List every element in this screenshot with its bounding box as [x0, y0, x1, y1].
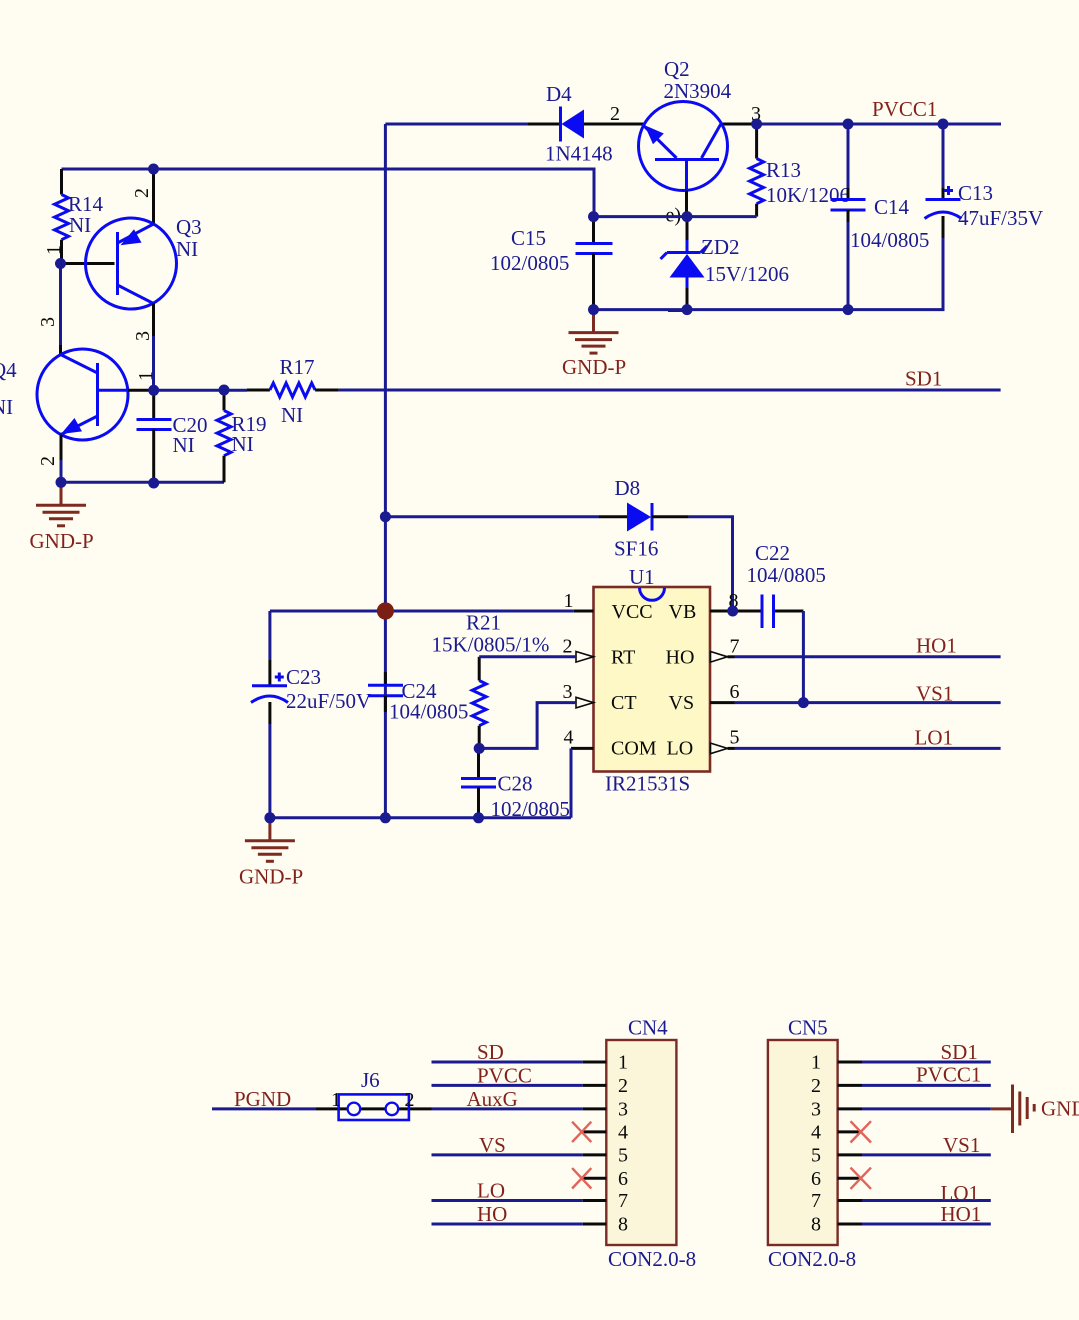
svg-text:CT: CT — [611, 692, 637, 714]
wire VS1 net bottom — [862, 1153, 991, 1156]
capacitor C23 polarized — [251, 660, 371, 724]
transistor Q3 — [43, 169, 202, 341]
net label HO1 — [916, 634, 957, 658]
connector CN4 — [582, 1016, 696, 1272]
capacitor C20 — [137, 390, 208, 483]
wire VS1 net — [735, 701, 1001, 704]
svg-text:VS1: VS1 — [943, 1133, 980, 1157]
svg-text:NI: NI — [176, 237, 198, 261]
junction C15 top node — [588, 211, 599, 222]
wire VS net — [432, 1153, 583, 1156]
junction bottom wire at C14 — [843, 304, 854, 315]
wire C22 down to VS net — [802, 611, 805, 703]
svg-text:3: 3 — [563, 681, 573, 703]
wire PVCC1 top left segment — [385, 123, 528, 126]
svg-text:VB: VB — [669, 601, 697, 623]
svg-text:1: 1 — [43, 245, 65, 255]
net label LO1 — [915, 726, 954, 750]
wire PVCC1 top right segment — [757, 123, 1001, 126]
capacitor C22 — [733, 541, 826, 628]
svg-text:Q4: Q4 — [0, 358, 17, 382]
wire RT net horizontal — [479, 655, 576, 658]
diode D8 — [599, 476, 689, 561]
svg-text:RT: RT — [611, 647, 635, 669]
svg-text:5: 5 — [618, 1145, 628, 1167]
svg-text:HO1: HO1 — [916, 634, 957, 658]
wire HO1 net — [735, 655, 1001, 658]
wire bottom-left GND net — [61, 481, 224, 484]
junction Q4 emitter GND node — [56, 477, 67, 488]
wire Q3 emitter down to Q4 base node — [152, 336, 155, 390]
svg-text:C23: C23 — [286, 665, 321, 689]
junction top wire at R13 — [751, 119, 762, 130]
svg-text:SD: SD — [477, 1040, 504, 1064]
svg-text:PVCC1: PVCC1 — [916, 1063, 981, 1087]
net label LO1 bottom — [941, 1181, 980, 1205]
zener diode ZD2 — [661, 217, 790, 311]
wire Q3 base node down to Q4 collector — [59, 264, 62, 346]
wire C23 to bottom GND node — [268, 724, 271, 818]
svg-text:3: 3 — [132, 331, 154, 341]
svg-text:NI: NI — [69, 213, 91, 237]
svg-text:1N4148: 1N4148 — [545, 142, 613, 166]
net label HO — [477, 1202, 507, 1226]
wire PVCC1 net bottom — [862, 1084, 991, 1087]
diode D4 — [528, 82, 613, 166]
net label SD1 bottom — [941, 1040, 978, 1064]
net label AuxG — [467, 1087, 518, 1111]
svg-text:102/0805: 102/0805 — [490, 251, 569, 275]
junction y169 wire at Q3 collector — [148, 164, 159, 175]
svg-text:Q3: Q3 — [176, 215, 202, 239]
svg-text:HO: HO — [477, 1202, 507, 1226]
svg-text:GND: GND — [1041, 1097, 1079, 1121]
ground GND-P of mid section — [239, 818, 303, 889]
svg-text:D4: D4 — [546, 82, 572, 106]
svg-text:6: 6 — [811, 1168, 821, 1190]
wire SD net — [432, 1061, 583, 1064]
svg-text:J6: J6 — [361, 1068, 380, 1092]
net label PVCC — [477, 1064, 532, 1088]
junction emitter node at Q2 stem — [682, 211, 693, 222]
wire SD1 net bottom — [862, 1061, 991, 1064]
svg-text:PGND: PGND — [234, 1087, 291, 1111]
svg-text:2: 2 — [618, 1075, 628, 1097]
svg-text:5: 5 — [811, 1145, 821, 1167]
svg-text:R17: R17 — [280, 355, 315, 379]
svg-text:R13: R13 — [766, 158, 801, 182]
net label PVCC1 bottom — [916, 1063, 981, 1087]
svg-text:C28: C28 — [498, 772, 533, 796]
transistor Q2 2N3904 — [584, 57, 761, 227]
wire AuxG net — [432, 1107, 583, 1110]
no-connect X on CN4 pin 4 — [572, 1122, 591, 1142]
svg-text:SD1: SD1 — [941, 1040, 978, 1064]
svg-text:2: 2 — [131, 188, 153, 198]
svg-text:HO: HO — [666, 647, 695, 669]
ground GND-P of left section — [30, 482, 94, 553]
svg-text:C13: C13 — [958, 181, 993, 205]
capacitor C24 — [368, 672, 468, 724]
svg-text:HO1: HO1 — [941, 1202, 982, 1226]
svg-text:10K/1206: 10K/1206 — [766, 183, 850, 207]
net label LO — [477, 1179, 505, 1203]
resistor R14 — [55, 169, 104, 264]
svg-text:8: 8 — [618, 1214, 628, 1236]
wire VCC corner down to C23 — [268, 611, 271, 660]
svg-text:6: 6 — [730, 681, 740, 703]
svg-text:8: 8 — [811, 1214, 821, 1236]
junction GND wire at bus — [380, 812, 391, 823]
junction top wire at C14 — [843, 119, 854, 130]
svg-text:CON2.0-8: CON2.0-8 — [768, 1247, 856, 1271]
junction bus at D8 — [380, 511, 391, 522]
wire Q4 base row — [152, 389, 247, 392]
net label PGND — [234, 1087, 291, 1111]
junction bottom wire at C15 — [588, 304, 599, 315]
junction R19 top node — [219, 385, 230, 396]
svg-text:2N3904: 2N3904 — [664, 79, 732, 103]
resistor R21 — [432, 611, 550, 749]
op-amp U1 IR21531S box — [563, 565, 740, 796]
resistor R13 — [750, 124, 850, 217]
junction top wire at C13 — [938, 119, 949, 130]
svg-text:C22: C22 — [755, 541, 790, 565]
wire HO1 net bottom — [862, 1223, 991, 1226]
capacitor C13 polarized — [925, 124, 1044, 238]
svg-text:IR21531S: IR21531S — [605, 772, 690, 796]
wire LO1 net — [735, 747, 1001, 750]
svg-text:7: 7 — [730, 636, 740, 658]
svg-text:4: 4 — [618, 1122, 628, 1144]
svg-text:GND-P: GND-P — [239, 865, 303, 889]
wire emitter node horizontal — [594, 215, 757, 218]
svg-text:2: 2 — [37, 456, 59, 466]
wire bottom GND-P net of top section — [594, 238, 944, 310]
svg-text:C15: C15 — [511, 226, 546, 250]
capacitor C28 — [461, 748, 570, 821]
wire CN5 pin3 to GND — [862, 1107, 991, 1110]
svg-text:AuxG: AuxG — [467, 1087, 518, 1111]
wire VCC net horizontal — [270, 610, 574, 613]
ground GND right side — [991, 1085, 1079, 1134]
junction C20 bottom node — [148, 478, 159, 489]
svg-text:3: 3 — [618, 1099, 628, 1121]
svg-text:SF16: SF16 — [614, 537, 658, 561]
ground GND-P of top section — [562, 310, 626, 379]
svg-text:C14: C14 — [874, 195, 910, 219]
net label HO1 bottom — [941, 1202, 982, 1226]
wire LO1 net bottom — [862, 1199, 991, 1202]
wire CT net route — [479, 703, 576, 749]
svg-text:1: 1 — [811, 1052, 821, 1074]
svg-text:3: 3 — [37, 317, 59, 327]
svg-text:GND-P: GND-P — [562, 355, 626, 379]
wire SD1 net to right edge — [339, 389, 1001, 392]
wire from y169 net down to C15 node — [62, 169, 595, 217]
svg-text:2: 2 — [811, 1075, 821, 1097]
svg-text:D8: D8 — [615, 476, 641, 500]
no-connect X on CN5 pin 4 — [851, 1121, 872, 1142]
svg-text:47uF/35V: 47uF/35V — [958, 206, 1043, 230]
svg-text:6: 6 — [618, 1168, 628, 1190]
junction VS net at C22 branch — [798, 697, 809, 708]
svg-text:VS: VS — [479, 1133, 506, 1157]
capacitor C15 — [490, 217, 613, 310]
svg-text:5: 5 — [730, 727, 740, 749]
no-connect X on CN4 pin 6 — [572, 1168, 591, 1188]
svg-text:GND-P: GND-P — [30, 529, 94, 553]
junction VB pin node — [727, 606, 738, 617]
junction bottom wire at ZD2 — [682, 304, 693, 315]
svg-text:CN5: CN5 — [788, 1016, 828, 1040]
net label SD1 — [905, 367, 942, 391]
junction GND wire at C28 — [473, 812, 484, 823]
junction Q4 base node — [148, 385, 159, 396]
transistor Q4 — [0, 317, 157, 466]
svg-text:22uF/50V: 22uF/50V — [286, 689, 371, 713]
svg-text:VCC: VCC — [612, 601, 653, 623]
wire COM pin down to GND wire — [570, 748, 573, 817]
svg-text:NI: NI — [173, 433, 195, 457]
svg-text:4: 4 — [811, 1122, 821, 1144]
svg-text:VS: VS — [669, 692, 695, 714]
svg-text:COM: COM — [611, 738, 657, 760]
svg-text:LO: LO — [667, 738, 694, 760]
svg-text:Q2: Q2 — [664, 57, 690, 81]
wire PGND to J6 — [212, 1107, 316, 1110]
wire D8 cathode to VB pin 8 — [689, 517, 733, 611]
junction GND wire at C23 — [264, 812, 275, 823]
svg-text:104/0805: 104/0805 — [850, 228, 929, 252]
svg-text:CN4: CN4 — [628, 1016, 668, 1040]
net label SD — [477, 1040, 504, 1064]
svg-text:1: 1 — [564, 590, 574, 612]
svg-text:1: 1 — [618, 1052, 628, 1074]
svg-text:1: 1 — [331, 1089, 341, 1111]
resistor R19 — [217, 390, 267, 482]
svg-text:104/0805: 104/0805 — [747, 563, 826, 587]
svg-text:NI: NI — [232, 432, 254, 456]
connector CN5 — [768, 1016, 862, 1272]
wire Q4 emitter to GND node — [60, 460, 63, 482]
net label VS — [479, 1133, 506, 1157]
net label PVCC1 — [872, 97, 937, 121]
svg-text:2: 2 — [405, 1089, 415, 1111]
svg-text:1: 1 — [135, 371, 157, 381]
svg-text:U1: U1 — [629, 565, 655, 589]
wire VB net from bus to D8 — [385, 515, 599, 518]
svg-text:15V/1206: 15V/1206 — [705, 262, 789, 286]
svg-text:2: 2 — [563, 636, 573, 658]
svg-text:VS1: VS1 — [916, 682, 953, 706]
wire long vertical bus from top wire down to bottom GND wire — [384, 124, 387, 818]
svg-text:7: 7 — [618, 1190, 628, 1212]
svg-text:NI: NI — [281, 403, 303, 427]
svg-text:SD1: SD1 — [905, 367, 942, 391]
net label VS1 — [916, 682, 953, 706]
svg-text:3: 3 — [811, 1099, 821, 1121]
svg-text:R21: R21 — [466, 611, 501, 635]
wire LO net — [432, 1199, 583, 1202]
svg-text:104/0805: 104/0805 — [389, 700, 468, 724]
svg-text:LO: LO — [477, 1179, 505, 1203]
wire bottom GND-P net of mid section — [270, 816, 571, 819]
node VCC bus junction (dark red) — [377, 602, 394, 619]
svg-text:PVCC: PVCC — [477, 1064, 532, 1088]
svg-text:LO1: LO1 — [915, 726, 954, 750]
wire PVCC net — [432, 1084, 583, 1087]
svg-text:ZD2: ZD2 — [701, 235, 740, 259]
svg-text:PVCC1: PVCC1 — [872, 97, 937, 121]
svg-text:CON2.0-8: CON2.0-8 — [608, 1247, 696, 1271]
net label VS1 bottom — [943, 1133, 980, 1157]
capacitor C14 — [831, 124, 930, 310]
no-connect X on CN5 pin 6 — [851, 1168, 872, 1189]
resistor R17 — [247, 355, 339, 427]
svg-text:4: 4 — [564, 727, 574, 749]
svg-text:2: 2 — [610, 103, 620, 125]
svg-text:NI: NI — [0, 395, 13, 419]
wire HO net — [432, 1223, 583, 1226]
junction Q3 base R14 node — [55, 258, 66, 269]
jumper J6 — [316, 1068, 432, 1120]
junction R21 C28 CT node — [474, 743, 485, 754]
svg-text:15K/0805/1%: 15K/0805/1% — [432, 633, 550, 657]
svg-text:7: 7 — [811, 1190, 821, 1212]
